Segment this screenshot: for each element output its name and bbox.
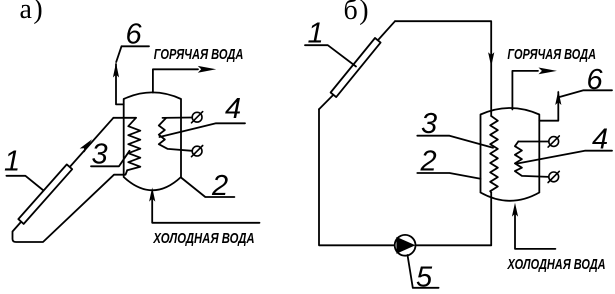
svg-text:2: 2 xyxy=(420,146,437,178)
svg-text:ГОРЯЧАЯ ВОДА: ГОРЯЧАЯ ВОДА xyxy=(507,47,596,63)
svg-text:1: 1 xyxy=(308,18,324,50)
svg-text:4: 4 xyxy=(592,123,608,155)
svg-text:5: 5 xyxy=(416,261,433,293)
svg-text:ГОРЯЧАЯ ВОДА: ГОРЯЧАЯ ВОДА xyxy=(154,47,244,63)
svg-text:3: 3 xyxy=(92,138,108,170)
svg-text:б): б) xyxy=(344,0,371,26)
svg-text:ХОЛОДНАЯ ВОДА: ХОЛОДНАЯ ВОДА xyxy=(507,257,606,273)
svg-text:а): а) xyxy=(20,0,45,25)
svg-text:4: 4 xyxy=(225,93,241,125)
svg-text:6: 6 xyxy=(126,18,143,50)
svg-text:2: 2 xyxy=(211,170,228,202)
svg-text:1: 1 xyxy=(4,146,20,178)
svg-text:ХОЛОДНАЯ ВОДА: ХОЛОДНАЯ ВОДА xyxy=(153,231,255,247)
svg-text:6: 6 xyxy=(587,64,604,96)
svg-text:3: 3 xyxy=(421,108,437,140)
